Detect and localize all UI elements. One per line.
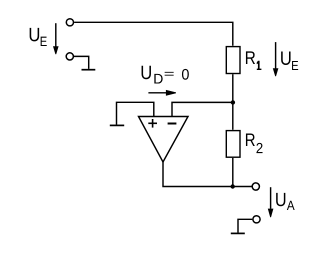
wire: node to op-amp inverting input — [172, 102, 233, 116]
wire: input terminal to R1 top — [74, 22, 233, 46]
terminal: input bottom — [66, 53, 73, 60]
terminal: output bottom — [253, 216, 260, 223]
label U_D = 0 — [142, 66, 189, 84]
wire: input lower terminal to ground — [74, 56, 89, 69]
ground (op-amp + input) — [110, 124, 124, 126]
wire: output lower terminal to ground — [238, 219, 252, 232]
terminal: output top — [252, 183, 259, 190]
resistor R2 — [226, 131, 240, 158]
wire: op-amp output to terminal — [163, 162, 252, 187]
node: junction R1/R2/inverting input — [231, 100, 235, 104]
label U_A (output) — [276, 193, 295, 210]
ground (output lower terminal) — [231, 232, 245, 234]
label R1 — [246, 51, 261, 70]
terminal: input top — [66, 19, 73, 26]
node: output junction — [231, 184, 235, 188]
label U_E (input) — [30, 28, 47, 46]
op-amp + input mark — [148, 119, 157, 128]
arrow: UA output (down) — [268, 187, 274, 217]
label U_E (across R1) — [281, 52, 298, 70]
label R2 — [246, 134, 263, 154]
op-amp - input mark — [168, 123, 177, 125]
arrow: UD (right) — [148, 90, 176, 96]
wire: op-amp non-inverting input to ground — [117, 102, 154, 124]
resistor R1 — [226, 47, 240, 74]
ground (input lower terminal) — [82, 69, 96, 71]
arrow: UE input (down) — [53, 23, 59, 54]
arrow: UE across R1 (down) — [273, 42, 279, 76]
op-amp U1 — [139, 117, 189, 163]
wire: R1 bottom to R2 top — [232, 74, 234, 130]
wire: R2 bottom to output node — [232, 158, 234, 187]
